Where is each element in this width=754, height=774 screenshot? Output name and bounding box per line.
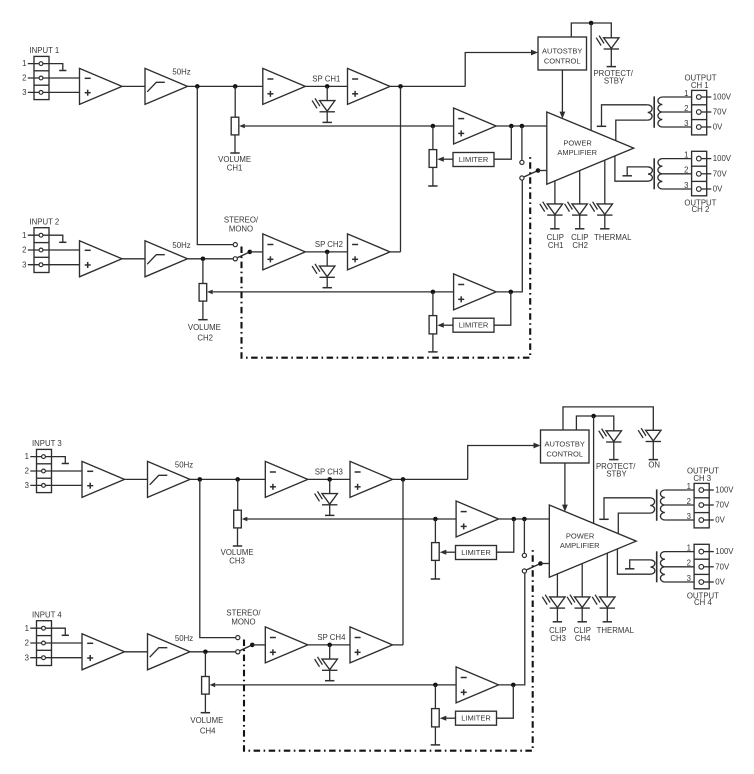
label VOLUME CH4: [190, 716, 223, 735]
wire J2 pin3 to U21 non-inverting input: [28, 264, 80, 266]
wire J_OUT3 pin 2 to 70V: [701, 504, 714, 506]
label 50Hz F4: [175, 634, 193, 643]
transformer T4 secondary winding: [660, 552, 664, 582]
op-amp U13: [348, 68, 391, 104]
svg-text:AUTOSTBY: AUTOSTBY: [542, 46, 582, 55]
svg-text:2: 2: [687, 559, 691, 568]
signal ground J4 pin1: [62, 634, 69, 636]
svg-text:2: 2: [684, 104, 688, 113]
J3 pin 2 label: [25, 467, 29, 476]
J_OUT1 pin 2 label: [684, 104, 688, 113]
label INPUT 2: [30, 217, 60, 226]
wire VR4 to ground: [204, 694, 206, 712]
wire J_OUT1 pin 1 to 100V: [699, 96, 712, 98]
bridge switch SW2 common node: [538, 561, 543, 566]
svg-text:INPUT 1: INPUT 1: [30, 46, 60, 55]
label 50Hz F2: [172, 241, 190, 250]
wire VR1 to ground: [234, 135, 236, 153]
wire F3 output to U32, node CH3: [190, 478, 265, 480]
wire node to LIMITER block CH1: [494, 126, 511, 159]
ground T2 primary: [623, 175, 632, 177]
wire switch common to power amplifier: [541, 563, 550, 565]
LED (CLIP CH4): [567, 595, 590, 608]
ground LED D41: [325, 680, 334, 682]
svg-text:1: 1: [25, 624, 29, 633]
input connector J4 (INPUT 4): [37, 621, 52, 666]
svg-text:CH1: CH1: [548, 241, 564, 250]
label SP CH3: [315, 468, 343, 477]
wire J_OUT4 pin 2 to 70V: [701, 566, 714, 568]
ground LED ON: [649, 459, 658, 461]
J2 pin 3 label: [22, 260, 26, 269]
wire J4 pin1 to signal ground: [30, 628, 65, 635]
label PROTECT/STBY: [593, 69, 633, 86]
J4 pin 3 label: [25, 653, 29, 662]
node SP CH3: [327, 477, 332, 482]
autostby control block U5: [538, 37, 587, 70]
label 0V J_OUT2: [713, 185, 723, 194]
volume potentiometer VR2 (VOLUME CH2): [199, 284, 213, 302]
wire AUTOSTBY control to power amplifier: [562, 463, 568, 512]
svg-text:70V: 70V: [713, 169, 728, 178]
wire power amp output to T4 primary: [617, 549, 650, 574]
node limiter feedback CH4: [511, 683, 516, 688]
label 0V J_OUT1: [713, 123, 723, 132]
input connector J3 (INPUT 3): [37, 449, 52, 492]
node limiter pot CH1: [431, 124, 436, 129]
svg-text:THERMAL: THERMAL: [597, 626, 635, 635]
op-amp U43: [350, 627, 393, 663]
wire F4 output to stereo/mono switch: [190, 651, 236, 653]
stereo/mono switch SW1 bottom contact: [236, 650, 240, 654]
label SP CH2: [315, 240, 343, 249]
wire power amp output to T3 primary: [618, 513, 650, 533]
svg-text:2: 2: [25, 467, 29, 476]
wire VR1 wiper to limiter amp U14: [244, 125, 454, 127]
arrow LIMITER to pot P3: [440, 550, 456, 555]
LED (CLIP CH1): [540, 202, 563, 215]
label VOLUME CH2: [188, 323, 221, 342]
op-amp U34 (limiter amp): [456, 501, 499, 537]
power amplifier U34 (CH3/CH4): [549, 505, 636, 577]
svg-text:2: 2: [22, 74, 26, 83]
svg-text:CH 1: CH 1: [691, 81, 709, 90]
J1 pin contacts: [39, 62, 43, 95]
wire U34 output to power amplifier: [499, 518, 550, 520]
svg-text:POWER: POWER: [563, 139, 592, 148]
svg-text:SP CH3: SP CH3: [315, 468, 343, 477]
wire J_OUT2 pin 3 to 0V: [699, 188, 712, 190]
transformer T1 core: [653, 96, 655, 127]
label STEREO/MONO: [226, 608, 261, 626]
wire J4 pin2 to U41 inverting input: [30, 642, 82, 644]
label SP CH4: [317, 633, 346, 642]
wire VR3 to ground: [237, 528, 239, 546]
svg-text:100V: 100V: [713, 93, 732, 102]
wire to AUTOSTBY CONTROL input: [468, 443, 541, 480]
arrow LIMITER to pot P4: [440, 716, 456, 721]
transformer T2 secondary winding: [658, 159, 663, 189]
bridge switch SW2 bottom contact: [522, 569, 526, 573]
ground CLIP CH2 LED: [575, 228, 584, 230]
LED D21 (SP CH2): [312, 264, 335, 277]
node limiter feedback CH1: [509, 124, 514, 129]
svg-text:3: 3: [22, 88, 26, 97]
J_OUT1 pin contacts: [696, 95, 701, 130]
LED (THERMAL): [592, 595, 615, 608]
ground pot P1: [428, 185, 437, 187]
transformer T3 primary winding: [650, 498, 654, 513]
limiter potentiometer P1: [429, 150, 437, 168]
node limiter pot CH4: [433, 683, 438, 688]
wire ground to transformer T1 primary: [602, 105, 648, 126]
label 0V J_OUT3: [715, 516, 725, 525]
svg-text:70V: 70V: [713, 108, 728, 117]
wire U41 output to filter F4: [125, 651, 148, 653]
svg-text:AUTOSTBY: AUTOSTBY: [545, 439, 585, 448]
wire J_OUT3 pin 3 to 0V: [701, 519, 714, 521]
wire F1 output to U12, node CH1: [188, 85, 263, 87]
wire CLIP CH2 LED to ground: [579, 215, 581, 228]
ground THERMAL LED: [600, 228, 609, 230]
bridge switch SW2 common node: [536, 168, 541, 173]
stereo/mono switch SW1 common node: [248, 250, 253, 255]
op-amp U23: [348, 234, 391, 270]
wire node to volume pot VR4: [204, 652, 206, 677]
stereo/mono switch SW1 top contact: [233, 243, 237, 247]
wire J_OUT4 pin 1 to 100V: [701, 551, 714, 553]
wire VR3 wiper to limiter amp U34: [246, 518, 456, 520]
label INPUT 3: [32, 439, 62, 448]
svg-text:CH3: CH3: [229, 556, 245, 565]
J2 pin 1 label: [22, 231, 26, 240]
svg-text:70V: 70V: [715, 562, 730, 571]
signal ground J2 pin1: [59, 241, 66, 243]
svg-text:CH4: CH4: [200, 727, 216, 736]
svg-text:CH3: CH3: [550, 634, 566, 643]
wire CLIP CH4 LED to ground: [581, 608, 583, 621]
wire power amp to CLIP CH3 LED: [556, 574, 558, 597]
ground CLIP CH3 LED: [553, 621, 562, 623]
svg-text:STBY: STBY: [606, 470, 627, 479]
J_OUT2 pin 1 label: [684, 151, 688, 160]
wire T2 secondary tap 3 (0V): [662, 188, 691, 190]
svg-text:INPUT 3: INPUT 3: [32, 439, 62, 448]
ground T1 primary: [597, 125, 606, 127]
wire switch common to power amplifier: [538, 170, 547, 172]
wire join node down to U43 output: [402, 479, 404, 645]
wire J_OUT2 pin 1 to 100V: [699, 158, 712, 160]
label 50Hz F3: [175, 461, 193, 470]
wire pot P3 to ground: [434, 560, 436, 578]
wire U14 output to power amplifier: [496, 125, 547, 127]
svg-text:3: 3: [22, 260, 26, 269]
op-amp U24 (limiter amp): [454, 274, 497, 310]
wire U11 output to filter F1: [122, 85, 145, 87]
wire U43 output to join node: [393, 644, 404, 646]
svg-text:2: 2: [22, 246, 26, 255]
svg-text:VOLUME: VOLUME: [188, 323, 221, 332]
label OUTPUT CH 3: [687, 467, 719, 484]
svg-text:LIMITER: LIMITER: [461, 714, 491, 723]
node CH3/CH4 join: [401, 477, 406, 482]
wire power amp to CLIP CH2 LED: [579, 171, 581, 204]
J_OUT3 pin 2 label: [687, 497, 691, 506]
svg-text:CH2: CH2: [572, 241, 588, 250]
label 100V J_OUT3: [715, 486, 734, 495]
svg-text:3: 3: [684, 181, 688, 190]
LED D31 (SP CH3): [315, 491, 338, 504]
50Hz high-pass filter F4: [148, 634, 191, 670]
ground VR2: [198, 319, 207, 321]
wire node to limiter pot P4: [434, 685, 436, 709]
label CLIP CH3: [549, 626, 566, 643]
J_OUT4 pin 2 label: [687, 559, 691, 568]
limiter block CH4: [456, 711, 497, 725]
wire AUTOSTBY control to power amplifier: [560, 70, 566, 119]
label CLIP CH2: [571, 233, 588, 250]
wire T2 secondary tap 1 (100V): [662, 158, 691, 160]
wire VR2 to ground: [202, 301, 204, 319]
J_OUT2 pin contacts: [696, 156, 701, 191]
ground CLIP CH4 LED: [578, 621, 587, 623]
wire T3 secondary tap 3 (0V): [665, 519, 694, 521]
50Hz high-pass filter F3: [148, 461, 191, 497]
label OUTPUT CH 2: [684, 199, 716, 214]
svg-text:50Hz: 50Hz: [172, 68, 190, 77]
J_OUT3 pin 3 label: [687, 512, 691, 521]
wire node to volume pot VR2: [202, 259, 204, 284]
svg-text:STEREO/: STEREO/: [224, 215, 259, 224]
ground pot P4: [431, 744, 440, 746]
wire node to volume pot VR3: [237, 479, 239, 510]
wire U42 output to U43: [308, 644, 350, 646]
J_OUT4 pin 1 label: [687, 544, 691, 553]
wire node to limiter pot P2: [432, 292, 434, 316]
wire node to LED D31: [329, 479, 331, 493]
svg-text:3: 3: [687, 512, 691, 521]
op-amp U31 (input differential amp CH3): [82, 461, 125, 497]
wire U44 output to bridge switch: [499, 573, 525, 685]
wire J3 pin1 to signal ground: [30, 457, 65, 464]
wire ground to transformer T4 primary: [630, 560, 651, 569]
LED D11 (SP CH1): [312, 98, 335, 111]
node CH1 stereo tap: [195, 84, 200, 89]
svg-text:MONO: MONO: [229, 225, 253, 234]
label VOLUME CH3: [221, 548, 254, 565]
node CH1/CH2 join: [398, 84, 403, 89]
wire power amp to CLIP CH4 LED: [581, 564, 583, 597]
ground pot P3: [431, 578, 440, 580]
wire power amp output to T1 primary: [616, 120, 648, 140]
J4 pin contacts: [42, 626, 46, 659]
node limiter pot CH2: [431, 290, 436, 295]
wire T3 secondary tap 1 (100V): [665, 489, 694, 491]
wire protect node down to power amplifier: [590, 23, 592, 130]
output connector J_OUT1 (OUTPUT CH 1): [692, 90, 707, 134]
limiter block CH3: [456, 546, 497, 560]
wire protect node down to power amplifier: [593, 416, 595, 523]
wire J4 pin3 to U41 non-inverting input: [30, 657, 82, 659]
wire LED D41 to ground: [329, 670, 331, 680]
label THERMAL: [594, 233, 632, 242]
svg-text:VOLUME: VOLUME: [190, 716, 223, 725]
node limiter pot CH3: [433, 517, 438, 522]
svg-text:100V: 100V: [715, 547, 734, 556]
svg-text:SP CH4: SP CH4: [317, 633, 346, 642]
node CH1 volume tap: [233, 84, 238, 89]
wire J2 pin1 to signal ground: [28, 235, 63, 242]
svg-text:3: 3: [25, 653, 29, 662]
wire tap down to bridge switch CH3: [523, 519, 525, 553]
svg-text:0V: 0V: [713, 123, 723, 132]
svg-text:CONTROL: CONTROL: [544, 56, 581, 65]
wire THERMAL LED to ground: [606, 608, 608, 621]
svg-text:50Hz: 50Hz: [172, 241, 190, 250]
wire LED ON to ground: [652, 442, 654, 460]
svg-text:1: 1: [22, 231, 26, 240]
wire node to LIMITER block CH2: [494, 292, 511, 325]
bridge switch SW2 top contact: [520, 160, 524, 164]
label 70V J_OUT3: [715, 501, 730, 510]
autostby control block U5: [541, 430, 590, 463]
label 100V J_OUT2: [713, 154, 732, 163]
stereo/mono switch SW1 common node: [250, 643, 255, 648]
stereo/mono switch SW1 top contact: [236, 636, 240, 640]
J_OUT4 pin 3 label: [687, 574, 691, 583]
wire node to LED D41: [329, 645, 331, 659]
svg-text:INPUT 2: INPUT 2: [30, 217, 60, 226]
output connector J_OUT3 (OUTPUT CH 3): [694, 483, 709, 528]
svg-text:CH1: CH1: [227, 163, 243, 172]
wire power amp to CLIP CH1 LED: [554, 181, 556, 204]
wire J_OUT1 pin 3 to 0V: [699, 126, 712, 128]
ground LED D31: [325, 514, 334, 516]
svg-text:100V: 100V: [715, 486, 734, 495]
wire power amp to THERMAL LED: [606, 553, 608, 597]
wire pot P2 to ground: [432, 334, 434, 352]
wire J1 pin2 to U11 inverting input: [28, 77, 80, 79]
svg-text:THERMAL: THERMAL: [594, 233, 632, 242]
op-amp U12: [263, 68, 306, 104]
label THERMAL: [597, 626, 635, 635]
svg-text:100V: 100V: [713, 154, 732, 163]
label 70V J_OUT2: [713, 169, 728, 178]
wire switch common to U42: [252, 644, 265, 646]
label SP CH1: [312, 75, 340, 84]
svg-text:0V: 0V: [715, 516, 725, 525]
wire T4 secondary tap 1 (100V): [665, 551, 694, 553]
svg-text:0V: 0V: [715, 578, 725, 587]
wire U22 output to U23: [305, 251, 347, 253]
wire CLIP CH3 LED to ground: [556, 608, 558, 621]
label CLIP CH4: [574, 626, 592, 643]
LED (CLIP CH3): [542, 595, 565, 608]
wire T1 secondary tap 2 (70V): [662, 111, 691, 113]
wire node to LED D21: [326, 252, 328, 266]
wire THERMAL LED to ground: [604, 215, 606, 228]
wire T3 secondary tap 2 (70V): [665, 504, 694, 506]
wire LED D31 to ground: [329, 505, 331, 515]
wire T4 secondary tap 3 (0V): [665, 581, 694, 583]
node protect line: [589, 21, 594, 26]
node bridge switch tap CH3: [522, 517, 527, 522]
svg-text:CH 4: CH 4: [694, 598, 712, 607]
svg-text:SP CH2: SP CH2: [315, 240, 343, 249]
J1 pin 3 label: [22, 88, 26, 97]
stereo/mono switch SW1 bottom contact: [233, 257, 237, 261]
ground LED D11: [323, 121, 332, 123]
limiter potentiometer P3: [432, 543, 440, 561]
op-amp U44 (limiter amp): [456, 667, 499, 703]
wire VR2 wiper to limiter amp U24: [213, 291, 454, 293]
wire node to limiter pot P3: [434, 519, 436, 543]
J1 pin 1 label: [22, 59, 26, 68]
50Hz high-pass filter F1: [145, 68, 188, 104]
bridge switch SW2 top contact: [522, 553, 526, 557]
ground LED D21: [323, 287, 332, 289]
svg-text:STEREO/: STEREO/: [226, 608, 261, 617]
label INPUT 4: [32, 610, 62, 619]
svg-text:3: 3: [684, 119, 688, 128]
label STEREO/MONO: [224, 215, 259, 233]
stereo/mono switch SW1 lever: [240, 645, 253, 651]
wire node to LIMITER block CH3: [497, 519, 514, 552]
wire U24 output to bridge switch: [496, 180, 522, 292]
wire tap down to bridge switch CH1: [521, 126, 523, 160]
svg-text:MONO: MONO: [231, 618, 255, 627]
node bridge switch tap CH1: [520, 124, 525, 129]
LED D41 (SP CH4): [315, 657, 338, 670]
label PROTECT/STBY: [596, 462, 636, 479]
wire J3 pin3 to U31 non-inverting input: [30, 484, 82, 486]
transformer T2 core: [653, 158, 655, 189]
wire ground to transformer T2 primary: [627, 167, 648, 176]
signal ground J3 pin1: [62, 463, 69, 465]
wire U31 output to filter F3: [125, 478, 148, 480]
wire LED D11 to ground: [326, 112, 328, 122]
label OUTPUT CH 4: [687, 592, 719, 607]
svg-text:CH 3: CH 3: [693, 474, 711, 483]
wire T1 secondary tap 1 (100V): [662, 96, 691, 98]
wire VR4 wiper to limiter amp U44: [215, 684, 456, 686]
svg-text:3: 3: [687, 574, 691, 583]
arrow LIMITER to pot P1: [437, 157, 453, 162]
op-amp U22: [263, 234, 306, 270]
wire pot P4 to ground: [434, 727, 436, 745]
volume potentiometer VR4 (VOLUME CH4): [202, 677, 216, 695]
svg-text:LIMITER: LIMITER: [459, 155, 489, 164]
J4 pin 1 label: [25, 624, 29, 633]
svg-text:AMPLIFIER: AMPLIFIER: [557, 148, 597, 157]
node SP CH4: [327, 643, 332, 648]
node CH4 volume tap: [203, 650, 208, 655]
wire AUTOSTBY to PROTECT/STBY LED: [571, 23, 611, 38]
J3 pin 3 label: [25, 481, 29, 490]
label VOLUME CH1: [218, 155, 251, 172]
svg-text:CH 2: CH 2: [692, 205, 710, 214]
wire LED PROTECT to ground: [610, 49, 612, 66]
label 100V J_OUT4: [715, 547, 734, 556]
wire ground to transformer T3 primary: [604, 498, 650, 519]
wire node to LED D11: [326, 86, 328, 100]
svg-text:LIMITER: LIMITER: [461, 548, 491, 557]
wire T1 secondary tap 3 (0V): [662, 126, 691, 128]
ground LED PROTECT: [607, 66, 616, 68]
svg-text:70V: 70V: [715, 501, 730, 510]
op-amp U33: [350, 461, 393, 497]
limiter block CH1: [453, 153, 494, 167]
